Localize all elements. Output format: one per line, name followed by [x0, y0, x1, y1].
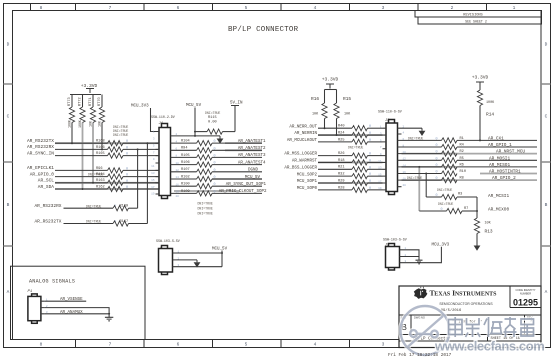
- svg-text:AR_MCSI1: AR_MCSI1: [488, 194, 509, 199]
- svg-text:DNI=TRUE: DNI=TRUE: [348, 145, 363, 149]
- J4 right pin numbers: [176, 133, 180, 198]
- gray net riser R7: [418, 167, 420, 211]
- resistor R107 0 / node DGND: [175, 168, 263, 174]
- resistor R94 0 / node AR_ANATEST2: [175, 147, 266, 153]
- power +3.3VD right / resistor R14 100K: [472, 75, 495, 141]
- gray net AR_WARMRST row: [318, 161, 383, 163]
- svg-text:4: 4: [314, 5, 317, 11]
- wire P1 pin3: [45, 313, 109, 315]
- svg-text:CODE IDENTITY: CODE IDENTITY: [515, 288, 535, 292]
- svg-text:MCU_3V3: MCU_3V3: [131, 105, 149, 109]
- gray net riser RT72: [82, 123, 84, 190]
- wire J2 pin1/pin3 to MCU_5V: [177, 251, 223, 267]
- gray net right m9: [402, 153, 538, 155]
- resistor R162 0: [96, 185, 159, 191]
- svg-text:11: 11: [151, 165, 155, 168]
- junction R14/m5: [479, 139, 481, 141]
- connector J5 SSW-103-S-SV: [383, 238, 407, 271]
- wire +3.3VD mid bus: [325, 89, 337, 91]
- svg-text:10K: 10K: [89, 121, 93, 127]
- svg-text:MCU_5V: MCU_5V: [212, 248, 228, 252]
- svg-text:DNI=TRUE: DNI=TRUE: [86, 220, 101, 224]
- svg-text:AR_ANATEST3: AR_ANATEST3: [238, 154, 266, 158]
- svg-text:DNI=TRUE: DNI=TRUE: [198, 202, 213, 206]
- svg-text:AR_RS232TX: AR_RS232TX: [27, 138, 54, 144]
- svg-text:AR_MOSI1: AR_MOSI1: [489, 156, 510, 161]
- top zone divider ticks: [31, 4, 487, 11]
- resistor R13 10K: [474, 218, 493, 246]
- svg-text:AR_ANATEST1: AR_ANATEST1: [238, 140, 266, 144]
- svg-text:MCU_5V: MCU_5V: [186, 104, 202, 108]
- wire AR_SYNC_IN: [55, 155, 108, 157]
- gray net AR_NERRIN row: [318, 134, 383, 136]
- resistor R166 0: [96, 146, 159, 152]
- svg-text:8: 8: [40, 5, 43, 11]
- svg-text:0: 0: [435, 144, 437, 148]
- svg-text:R165: R165: [96, 152, 105, 156]
- junction m13/riser: [418, 166, 420, 168]
- connector P1: [28, 290, 41, 323]
- node MCU_SOP2 / resistor R32: [297, 173, 383, 179]
- svg-text:R109: R109: [181, 190, 190, 194]
- svg-text:DNI=TRUE: DNI=TRUE: [198, 207, 213, 211]
- wire J5 pin1/pin2: [404, 250, 420, 257]
- svg-text:AR_MSS_LOGGER: AR_MSS_LOGGER: [284, 153, 317, 157]
- svg-text:R163: R163: [96, 179, 105, 183]
- svg-text:5V_IN: 5V_IN: [230, 102, 243, 106]
- svg-text:AR_RS232RX: AR_RS232RX: [27, 144, 54, 150]
- gray net AR_SDA row: [55, 188, 159, 190]
- junction J2 pin1: [221, 252, 223, 254]
- junction R15/m3: [336, 134, 338, 136]
- junction riser TX: [146, 142, 148, 144]
- J2 pin numbers: [178, 250, 180, 267]
- resistor RT72 100K: [78, 95, 85, 129]
- wire MCU_3V3 to pin1: [151, 108, 160, 132]
- resistor R7 / node AR_MCXO0: [419, 202, 509, 214]
- svg-text:A: A: [545, 289, 548, 295]
- J2 pin stubs: [173, 253, 177, 267]
- svg-text:R168: R168: [96, 140, 105, 144]
- gray net AR_ANATEST1 tail: [225, 142, 262, 144]
- svg-text:R21: R21: [338, 166, 344, 170]
- svg-text:ANALOG SIGNALS: ANALOG SIGNALS: [29, 279, 75, 285]
- svg-text:R115: R115: [208, 116, 217, 120]
- junction riser RX: [137, 148, 139, 150]
- svg-text:AR_MCXO0: AR_MCXO0: [488, 207, 509, 212]
- svg-text:R104: R104: [181, 140, 190, 144]
- junction RT71/row: [92, 182, 94, 184]
- ground DGND R13: [474, 246, 481, 251]
- svg-text:B: B: [7, 202, 10, 208]
- node AR_NERR_OUT / resistor R40: [289, 125, 382, 131]
- wire J5 pin3 to MCU_3V3: [404, 247, 442, 263]
- wire J2 pin2 stub: [177, 259, 198, 261]
- J4 right pin stubs: [171, 136, 175, 194]
- svg-text:10K: 10K: [485, 222, 492, 226]
- svg-text:R105: R105: [181, 154, 190, 158]
- svg-text:R18: R18: [338, 159, 344, 163]
- bottom zone numbers: [40, 342, 516, 348]
- svg-text:AR_CX1: AR_CX1: [488, 137, 504, 142]
- svg-text:19: 19: [151, 193, 155, 196]
- resistor R3 / node AR_MCSI1: [426, 188, 509, 200]
- svg-text:10K: 10K: [98, 121, 102, 127]
- svg-text:AR_SDA: AR_SDA: [38, 184, 55, 190]
- ground DGND pin2: [419, 128, 426, 136]
- resistor RT70 10K: [98, 95, 105, 150]
- resistor R10 / node AR_HOSTINTR1: [402, 170, 521, 176]
- J5 pin numbers: [405, 247, 407, 263]
- svg-text:RT71: RT71: [89, 97, 93, 106]
- svg-text:R106: R106: [181, 161, 190, 165]
- wire riser TX alt: [146, 143, 148, 223]
- wire AR_RS232TX: [55, 142, 108, 144]
- resistor R16 10K: [311, 90, 327, 129]
- svg-text:DNI=TRUE: DNI=TRUE: [198, 212, 213, 216]
- ground GND P1: [105, 314, 113, 321]
- code ident box: [510, 286, 541, 308]
- resistor RT71 10K: [89, 95, 96, 128]
- watermark glyphs halo: [449, 317, 534, 337]
- svg-text:Fri Feb 17 18:22:18 2017: Fri Feb 17 18:22:18 2017: [388, 353, 452, 358]
- wire riser RX alt: [137, 149, 139, 208]
- svg-text:0.00: 0.00: [208, 121, 217, 125]
- gray net AR_SCL row: [55, 182, 159, 184]
- svg-text:7: 7: [109, 5, 112, 11]
- svg-text:R14: R14: [486, 112, 494, 118]
- junction P1 gnd: [108, 313, 110, 315]
- junction R13 bus: [476, 210, 478, 212]
- svg-text:AR_MCUCLKOUT: AR_MCUCLKOUT: [287, 139, 318, 143]
- wire bus to R13: [476, 197, 478, 218]
- svg-text:6: 6: [177, 5, 180, 11]
- DNI flags group top: [113, 125, 128, 137]
- svg-text:AR_NRST_MCU: AR_NRST_MCU: [496, 150, 525, 155]
- wire AR_RS232RX alt: [64, 207, 114, 209]
- svg-text:DNI=TRUE: DNI=TRUE: [205, 111, 220, 115]
- connector J3 SSW-110-6-SV: [378, 110, 402, 195]
- J4 left pin stubs: [156, 132, 160, 195]
- revisions table: [415, 11, 542, 25]
- right zone letters: [545, 42, 548, 296]
- title block row lines: [399, 315, 541, 341]
- svg-text:R28: R28: [338, 186, 344, 190]
- junction R16/m1: [324, 127, 326, 129]
- J3 left pin numbers: [378, 126, 382, 191]
- svg-text:0: 0: [435, 137, 437, 141]
- svg-text:10K: 10K: [344, 113, 351, 117]
- svg-text:R162: R162: [96, 185, 105, 189]
- svg-text:RT73: RT73: [68, 97, 72, 106]
- svg-text:D: D: [545, 42, 548, 48]
- svg-text:8: 8: [40, 342, 43, 348]
- svg-text:R96: R96: [96, 167, 102, 171]
- svg-text:C: C: [545, 114, 548, 120]
- svg-text:SSW-110-6-SV: SSW-110-6-SV: [378, 110, 402, 114]
- resistor R96 0: [96, 167, 159, 173]
- svg-text:01295: 01295: [513, 298, 538, 308]
- gray net AR_RS232TX row: [55, 142, 159, 144]
- junction RT72/row: [82, 188, 84, 190]
- node AR_WARMRST / resistor R18: [292, 159, 383, 165]
- svg-text:SSW-103-S-SV: SSW-103-S-SV: [156, 239, 180, 243]
- svg-text:13: 13: [378, 167, 382, 170]
- resistor R164 0: [96, 173, 159, 179]
- DNI flags below J4: [198, 202, 213, 216]
- wire AR_EPICLK1: [55, 169, 108, 171]
- watermark seal: [401, 306, 450, 355]
- svg-text:4: 4: [314, 342, 317, 348]
- svg-text:AR_RS232RX: AR_RS232RX: [34, 203, 61, 209]
- junction RT70/row: [101, 148, 103, 150]
- svg-text:REVISIONS: REVISIONS: [463, 14, 482, 18]
- gray net right m17: [402, 179, 538, 181]
- J3 right pin numbers: [403, 126, 407, 188]
- svg-text:13: 13: [151, 172, 155, 175]
- junction RT73/row: [71, 142, 73, 144]
- wire MCU_5V riser: [194, 108, 196, 136]
- svg-text:D: D: [7, 42, 10, 48]
- svg-text:AR_GPIO_0: AR_GPIO_0: [30, 171, 55, 177]
- resistor R167 0: [113, 220, 147, 226]
- power +3.3VD mid: [322, 77, 339, 89]
- svg-text:AR_BSS_LOGGER: AR_BSS_LOGGER: [284, 166, 317, 170]
- connector J4 SSW-110-22-F-D-VS-K: [151, 115, 175, 199]
- svg-text:100K: 100K: [78, 120, 82, 128]
- svg-text:R8: R8: [460, 177, 464, 181]
- svg-text:C: C: [7, 114, 10, 120]
- top zone numbers: [40, 5, 516, 11]
- resistor R163 0: [96, 179, 159, 185]
- wire +3.3VD bus: [70, 94, 101, 96]
- gray net MCU_5V tail: [212, 178, 262, 180]
- wire AR_SCL: [55, 182, 108, 184]
- svg-text:AR_SYNC_IN: AR_SYNC_IN: [27, 150, 54, 156]
- svg-text:+3.3VD: +3.3VD: [322, 77, 339, 83]
- TI bug logo: [414, 287, 428, 299]
- svg-text:A: A: [7, 289, 10, 295]
- analog signals enclosure: [11, 266, 146, 339]
- resistor R1 / node AR_CX1: [402, 137, 538, 143]
- svg-text:DWG NO: DWG NO: [414, 316, 425, 320]
- title block frame: [399, 286, 541, 348]
- svg-text:100K: 100K: [486, 101, 495, 105]
- svg-text:AR_WARMRST: AR_WARMRST: [292, 160, 318, 164]
- gray net below J4: [174, 190, 240, 192]
- resistor R105 0 / node AR_ANATEST3: [175, 154, 266, 160]
- svg-text:R3: R3: [458, 193, 462, 197]
- resistor R106 0 / node AR_ANATEST4: [175, 161, 266, 167]
- wire P1 pin1: [45, 300, 86, 302]
- svg-text:RT70: RT70: [98, 97, 102, 106]
- svg-text:0: 0: [435, 164, 437, 168]
- svg-text:AR_MISO1: AR_MISO1: [489, 163, 510, 168]
- svg-text:R2: R2: [460, 150, 464, 154]
- J3 left pin stubs: [383, 128, 387, 190]
- watermark glyphs: [449, 317, 534, 337]
- svg-text:SSW-103-S-SV: SSW-103-S-SV: [383, 238, 407, 242]
- svg-text:DNI=TRUE: DNI=TRUE: [113, 133, 128, 137]
- svg-text:MCU_SOP2: MCU_SOP2: [297, 173, 318, 177]
- svg-text:AR_NERR_OUT: AR_NERR_OUT: [289, 125, 317, 129]
- svg-text:DNI=TRUE: DNI=TRUE: [437, 188, 452, 192]
- svg-text:R10: R10: [460, 170, 466, 174]
- resistor R165 0: [96, 152, 159, 158]
- svg-text:6: 6: [177, 342, 180, 348]
- svg-text:SSW-110-2-DV: SSW-110-2-DV: [151, 115, 175, 119]
- resistor R169 0: [113, 205, 138, 211]
- node AR_MCUCLKOUT / resistor R25: [287, 138, 383, 144]
- svg-text:R107: R107: [181, 168, 190, 172]
- node AR_BSS_LOGGER / resistor R21: [284, 166, 382, 172]
- svg-text:R94: R94: [181, 147, 187, 151]
- ground DGND p2: [217, 136, 224, 144]
- resistor R115 0.00: [195, 116, 235, 134]
- ground GND J5: [416, 257, 423, 264]
- svg-text:AR_RS232TX: AR_RS232TX: [34, 218, 61, 224]
- svg-text:MCU_SOP1: MCU_SOP1: [297, 180, 318, 184]
- svg-text:www.elecfans.com: www.elecfans.com: [434, 338, 544, 353]
- svg-text:R40: R40: [338, 125, 344, 129]
- resistor R102 0 / node MCU_5V: [175, 175, 263, 181]
- svg-text:R29: R29: [338, 179, 344, 183]
- svg-text:5: 5: [245, 5, 248, 11]
- svg-text:SEMICONDUCTOR OPERATIONS: SEMICONDUCTOR OPERATIONS: [439, 302, 493, 306]
- svg-text:AR_EPICLK1: AR_EPICLK1: [27, 165, 54, 171]
- resistor R8 / node AR_GPIO_2: [402, 176, 517, 183]
- svg-text:NUMBER: NUMBER: [520, 291, 531, 295]
- resistor R100 0 / node AR_SYNC_OUT_SOP1: [175, 183, 267, 189]
- connector J2 SSW-103-S-SV: [156, 239, 180, 275]
- gray net right m15 tail: [480, 173, 537, 175]
- P1 pin stubs: [41, 301, 45, 314]
- wire P1 pin2: [45, 308, 109, 314]
- watermark seal halo: [401, 306, 450, 355]
- wire AR_GPIO_0: [55, 176, 108, 178]
- svg-text:+3.3VD: +3.3VD: [472, 75, 489, 81]
- svg-text:20: 20: [403, 184, 407, 187]
- power 5V_IN: [230, 102, 243, 111]
- side zone divider ticks: [4, 84, 551, 246]
- svg-text:R102: R102: [181, 175, 190, 179]
- svg-text:AR_GPIO_1: AR_GPIO_1: [488, 143, 512, 148]
- resistor R6 / node AR_MISO1: [402, 163, 538, 169]
- wire J3 pin2 to ground: [402, 127, 423, 129]
- svg-text:SEE SHEET 2: SEE SHEET 2: [465, 20, 487, 24]
- resistor R104 0 / node AR_ANATEST1: [175, 140, 266, 146]
- wire AR_RS232RX: [55, 148, 108, 150]
- J5 pin stubs: [400, 250, 404, 263]
- J3 right pin stubs: [398, 128, 402, 187]
- svg-text:DNI=TRUE: DNI=TRUE: [86, 204, 101, 208]
- svg-text:R100: R100: [181, 183, 190, 187]
- resistor R2 / node AR_NRST_MCU: [402, 150, 526, 157]
- power +3.3VD: [81, 83, 98, 93]
- wire riser R3: [425, 174, 427, 198]
- gray net MCU_SOP0 row: [318, 182, 383, 184]
- node MCU_SOP0 / resistor R28: [297, 186, 383, 192]
- svg-text:15: 15: [151, 179, 155, 182]
- svg-text:R25: R25: [338, 138, 344, 142]
- J4 left pin numbers: [151, 131, 155, 196]
- svg-text:100K: 100K: [68, 120, 72, 128]
- svg-text:15: 15: [378, 174, 382, 177]
- svg-text:R166: R166: [96, 146, 105, 150]
- svg-text:RT72: RT72: [79, 97, 83, 106]
- gray net riser RT71: [92, 123, 94, 183]
- junction MCU_5V/R101: [194, 131, 196, 133]
- left zone letters: [7, 42, 10, 296]
- svg-text:R15: R15: [343, 96, 351, 102]
- svg-text:AR_NERRIN: AR_NERRIN: [294, 132, 317, 136]
- svg-text:R26: R26: [338, 152, 344, 156]
- svg-text:R24: R24: [338, 131, 344, 135]
- svg-text:AR_SYNC_OUT_SOP1: AR_SYNC_OUT_SOP1: [226, 183, 267, 187]
- resistor R5 / node AR_MOSI1: [402, 156, 538, 163]
- node AR_MSS_LOGGER / resistor R26 DNI: [284, 145, 382, 158]
- svg-text:17: 17: [151, 186, 155, 189]
- svg-text:AR_HOSTINTR1: AR_HOSTINTR1: [489, 170, 521, 175]
- resistor RT73 100K: [68, 95, 75, 144]
- node AR_NERRIN / resistor R24: [294, 131, 382, 137]
- junction m15/riser: [425, 173, 427, 175]
- junction MCU_5V/p2: [194, 135, 196, 137]
- ground DGND J2: [194, 260, 201, 268]
- svg-text:AR_ANATEST4: AR_ANATEST4: [238, 161, 266, 165]
- svg-text:0: 0: [435, 151, 437, 155]
- svg-text:R16: R16: [311, 96, 319, 102]
- svg-text:B: B: [545, 202, 548, 208]
- resistor R4 / node AR_GPIO_1: [402, 143, 538, 149]
- wire 5V_IN riser: [234, 110, 236, 132]
- svg-text:AR_GPIO_2: AR_GPIO_2: [492, 176, 516, 181]
- svg-text:11: 11: [378, 160, 382, 163]
- svg-text:7: 7: [109, 342, 112, 348]
- svg-text:BP/LP CONNECTOR: BP/LP CONNECTOR: [228, 26, 299, 34]
- gray net right m13: [402, 166, 458, 168]
- svg-text:19: 19: [378, 187, 382, 190]
- node MCU_SOP1 / resistor R29: [297, 179, 383, 185]
- svg-text:0: 0: [435, 171, 437, 175]
- wire AR_RS232TX alt: [64, 223, 114, 225]
- svg-text:MCU_3V3: MCU_3V3: [432, 244, 450, 248]
- svg-text:AR_PMIC_CLKOUT_SOP2: AR_PMIC_CLKOUT_SOP2: [219, 190, 267, 194]
- gray net AR_ANATEST2 tail: [225, 149, 262, 151]
- svg-text:DNI=TRUE: DNI=TRUE: [438, 202, 453, 206]
- svg-text:0: 0: [435, 157, 437, 161]
- svg-text:R13: R13: [485, 229, 493, 235]
- svg-text:20: 20: [176, 195, 180, 198]
- resistor R109 0 / node AR_PMIC_CLKOUT_SOP2: [175, 190, 267, 196]
- P1 pin numbers: [46, 299, 48, 315]
- svg-text:0: 0: [435, 177, 437, 181]
- wire AR_SDA: [55, 188, 108, 190]
- resistor R15 10K: [334, 90, 352, 136]
- svg-text:R164: R164: [96, 173, 105, 177]
- svg-text:AR_ANATEST2: AR_ANATEST2: [238, 147, 266, 151]
- bottom zone divider ticks: [76, 340, 487, 348]
- svg-text:R32: R32: [338, 173, 344, 177]
- svg-text:10K: 10K: [312, 113, 319, 117]
- svg-text:17: 17: [378, 180, 382, 183]
- svg-text:DGND: DGND: [248, 169, 259, 173]
- svg-text:MCU_5V: MCU_5V: [245, 176, 261, 180]
- svg-text:3: 3: [382, 342, 385, 348]
- wire p2 row: [175, 135, 221, 137]
- svg-text:3: 3: [382, 5, 385, 11]
- svg-text:AR_SCL: AR_SCL: [38, 178, 55, 184]
